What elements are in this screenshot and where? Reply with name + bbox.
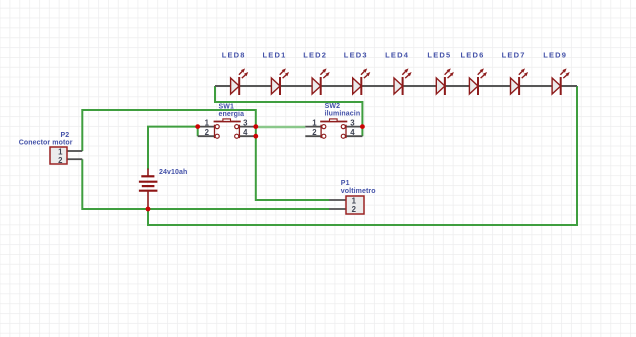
svg-text:LED4: LED4 [385, 51, 409, 60]
svg-text:2: 2 [58, 156, 63, 165]
wire: SW1 pin3 to SW2 pin1 [256, 126, 305, 129]
wire: battery - net bottom run to LED9 cathode side [148, 86, 577, 225]
svg-text:1: 1 [312, 119, 317, 128]
body [346, 196, 364, 214]
junction at SW2 pin3 [360, 124, 365, 129]
junction at SW1 pin3 [253, 124, 258, 129]
connector P2 [50, 147, 82, 165]
svg-text:3: 3 [350, 119, 355, 128]
body [50, 147, 67, 164]
LED LED3 [353, 68, 371, 95]
battery 24v10ah [139, 169, 158, 210]
wire: net from P2 pin1 up, across, down through SW1 pins 3/4 to P1 pin1 [82, 110, 329, 200]
pin 3 [239, 126, 255, 128]
svg-text:3: 3 [243, 119, 248, 128]
LED LED9 [552, 68, 570, 95]
svg-text:2: 2 [352, 205, 357, 214]
svg-text:LED9: LED9 [543, 51, 567, 60]
svg-text:4: 4 [350, 128, 355, 137]
plate long [139, 190, 158, 192]
junction at battery minus [146, 207, 151, 212]
pin 2 [305, 135, 321, 137]
svg-text:Conector motor: Conector motor [19, 140, 73, 147]
pin 2 [329, 208, 346, 210]
svg-text:1: 1 [205, 119, 210, 128]
svg-text:LED3: LED3 [344, 51, 368, 60]
pin 4 [346, 135, 362, 137]
bottom lead [147, 191, 149, 209]
LED LED8 [231, 68, 249, 95]
svg-text:SW1: SW1 [219, 104, 234, 111]
svg-text:iluminacin: iluminacin [325, 110, 361, 117]
wire: battery - net to P2 pin2 and P1 pin2 [82, 159, 329, 209]
wire: net from battery + up and right to SW1 pin1 [148, 127, 198, 170]
wire: net from LED8 anode down and across to SW2 pins 3/4 [215, 86, 362, 136]
plate short [142, 185, 155, 187]
wire: SW1 pin1 to pin2 bracket [197, 127, 199, 137]
pin 2 [67, 158, 82, 160]
top lead [147, 169, 149, 177]
switch SW2 [305, 119, 362, 139]
pin 1 [198, 126, 215, 128]
wire: LED series row [215, 85, 577, 87]
svg-text:LED7: LED7 [502, 51, 526, 60]
LED LED1 [271, 68, 289, 95]
svg-text:LED1: LED1 [263, 51, 287, 60]
pin 1 [67, 150, 82, 152]
svg-text:LED6: LED6 [461, 51, 485, 60]
svg-text:LED5: LED5 [427, 51, 451, 60]
svg-text:2: 2 [205, 128, 210, 137]
connector P1 [329, 196, 364, 214]
pin 3 [346, 126, 362, 128]
pin 4 [239, 135, 255, 137]
LED LED4 [394, 68, 412, 95]
LED LED7 [510, 68, 528, 95]
svg-text:voltimetro: voltimetro [341, 188, 376, 195]
svg-text:24v10ah: 24v10ah [159, 169, 187, 176]
svg-text:P2: P2 [61, 132, 70, 139]
svg-text:2: 2 [312, 128, 317, 137]
svg-text:LED8: LED8 [222, 51, 246, 60]
pin 1 [305, 126, 321, 128]
svg-text:SW2: SW2 [325, 103, 340, 110]
junction at SW1 pin4 [253, 134, 258, 139]
svg-text:energia: energia [219, 111, 245, 118]
switch SW1 [198, 119, 256, 139]
junction at SW1 pin1 [195, 124, 200, 129]
LED LED2 [312, 68, 330, 95]
LED LED6 [469, 68, 487, 95]
pin 1 [329, 199, 346, 201]
svg-text:LED2: LED2 [303, 51, 327, 60]
LED LED5 [436, 68, 454, 95]
svg-text:4: 4 [243, 128, 248, 137]
pin 2 [198, 135, 215, 137]
svg-text:P1: P1 [341, 180, 350, 187]
plate long [139, 181, 158, 183]
plate short [141, 175, 154, 177]
